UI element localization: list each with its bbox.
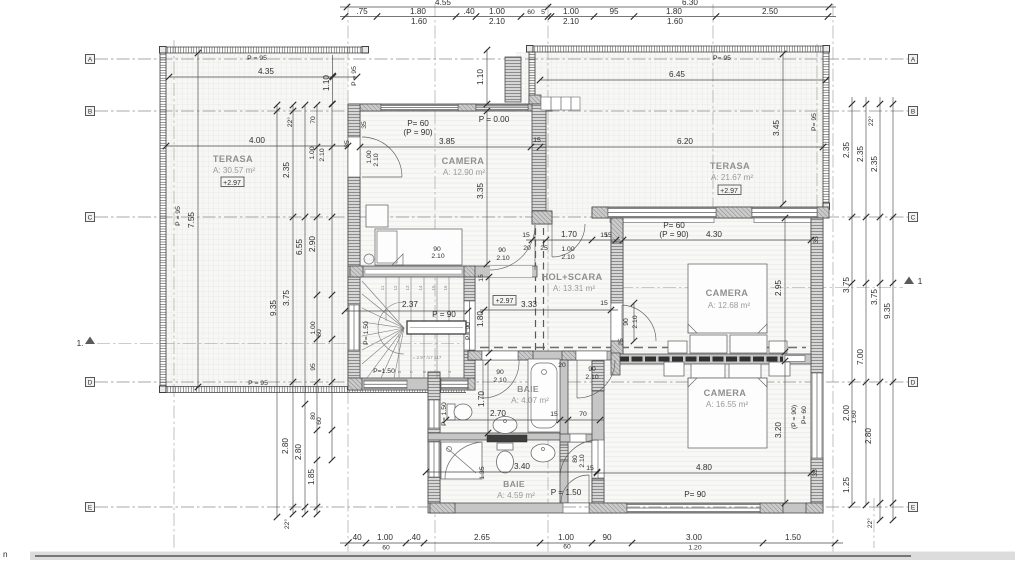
left dim cluster — [276, 105, 278, 517]
svg-text:3.20: 3.20 — [774, 422, 783, 438]
svg-text:E: E — [911, 505, 916, 512]
svg-text:1: 1 — [918, 277, 923, 286]
svg-text:1.80: 1.80 — [666, 7, 682, 16]
bed camera 12.90 — [375, 229, 462, 265]
svg-text:35: 35 — [812, 469, 819, 477]
svg-text:1.80: 1.80 — [410, 7, 426, 16]
svg-text:2.95: 2.95 — [774, 280, 783, 296]
dim 6.20 — [540, 146, 823, 148]
svg-text:4.35: 4.35 — [258, 67, 274, 76]
svg-text:P= 1.50: P= 1.50 — [441, 402, 448, 426]
section line 1 left — [97, 343, 478, 345]
wall: stair east — [464, 277, 475, 378]
svg-text:60: 60 — [563, 544, 571, 551]
camera 12.90 floor — [360, 111, 532, 266]
grid line C — [95, 216, 908, 218]
terrace right top edge — [527, 46, 829, 52]
grid bubble C right — [909, 213, 918, 222]
svg-text:P=1.50: P=1.50 — [373, 368, 395, 375]
svg-text:1.00: 1.00 — [489, 7, 505, 16]
svg-text:D: D — [88, 380, 93, 387]
svg-text:1.50: 1.50 — [785, 533, 801, 542]
svg-text:= 2.97 /17 x17: = 2.97 /17 x17 — [413, 355, 442, 360]
svg-text:22°: 22° — [867, 116, 875, 127]
door camera 12.68 — [621, 305, 623, 341]
wall: stair south — [348, 378, 475, 390]
grid bubble B left — [86, 107, 95, 116]
entry steps — [541, 97, 580, 110]
svg-text:1.00: 1.00 — [563, 7, 579, 16]
svg-text:1.20: 1.20 — [688, 545, 701, 552]
svg-text:P= 90: P= 90 — [465, 322, 472, 340]
dim 4.00 — [166, 145, 348, 147]
dim 1.10 center — [486, 50, 488, 104]
dim chain top row 2 — [340, 16, 836, 18]
svg-text:22°: 22° — [866, 518, 874, 529]
svg-text:n: n — [3, 550, 8, 559]
dim 4.80 — [597, 472, 811, 474]
svg-text:2.00: 2.00 — [842, 405, 851, 421]
dim 4.30 — [623, 239, 811, 241]
svg-text:15: 15 — [604, 232, 612, 239]
grid bubble B right — [909, 107, 918, 116]
wall: hall east / camera 12.68 west — [611, 218, 623, 354]
svg-text:80: 80 — [572, 455, 579, 463]
camera 12.68 floor — [623, 218, 811, 353]
svg-text:1.80: 1.80 — [476, 311, 485, 327]
wall: between bathrooms — [428, 433, 568, 440]
svg-text:2.10: 2.10 — [493, 377, 506, 384]
svg-text:13: 13 — [405, 285, 410, 291]
closet camera 12.90 — [366, 205, 388, 227]
svg-text:P= 60: P= 60 — [801, 406, 808, 424]
dim chain top row 1 — [340, 6, 836, 8]
svg-text:90: 90 — [498, 247, 506, 254]
svg-text:15: 15 — [600, 300, 608, 307]
terrace left floor — [166, 53, 348, 389]
svg-text:4.00: 4.00 — [249, 136, 265, 145]
svg-text:P= 95: P= 95 — [713, 55, 731, 62]
window bath west 2 — [428, 442, 440, 477]
terrace left west edge — [160, 47, 166, 389]
bathtub bath 4.07 — [528, 359, 560, 432]
svg-text:P = 0.00: P = 0.00 — [479, 115, 510, 124]
svg-text:1.70: 1.70 — [561, 230, 577, 239]
svg-text:.40: .40 — [409, 533, 421, 542]
svg-text:15: 15 — [586, 465, 594, 472]
beam line over — [480, 347, 806, 349]
porch corner pier — [529, 95, 541, 104]
svg-text:P= 90: P= 90 — [684, 490, 706, 499]
svg-text:2.70: 2.70 — [490, 409, 506, 418]
svg-text:3.75: 3.75 — [870, 289, 879, 305]
dim 3.35 camera — [486, 111, 488, 264]
terrace left top edge — [160, 47, 368, 53]
svg-text:(P = 90): (P = 90) — [791, 405, 798, 429]
dim 2.70 bath — [446, 419, 560, 421]
svg-text:P= 1.50: P= 1.50 — [363, 321, 370, 345]
dim 1.10 west — [332, 55, 334, 104]
svg-text:CAMERA: CAMERA — [704, 388, 747, 398]
wall: terrace south / camera 12.68 north — [592, 207, 829, 218]
svg-text:A: A — [88, 57, 93, 64]
section line 1 right — [620, 287, 903, 289]
svg-text:15: 15 — [550, 411, 558, 418]
svg-text:1.60: 1.60 — [411, 17, 427, 26]
svg-text:1.35: 1.35 — [479, 466, 486, 479]
svg-text:60: 60 — [527, 9, 535, 16]
window stair south 1 — [364, 380, 407, 389]
svg-text:70: 70 — [579, 411, 587, 418]
grid line E — [95, 506, 908, 508]
dim 4.35 — [169, 76, 357, 78]
svg-text:2.10: 2.10 — [319, 148, 326, 161]
stair — [360, 277, 466, 378]
svg-text:TERASA: TERASA — [213, 154, 253, 164]
svg-text:C: C — [88, 215, 93, 222]
grid vertical x817 — [816, 44, 818, 217]
dim 3.33 hall — [480, 309, 618, 311]
svg-text:+2.97: +2.97 — [720, 188, 738, 195]
svg-text:2.80: 2.80 — [281, 438, 290, 454]
wall: camera 12.90 east — [532, 104, 546, 211]
grid vertical x435 — [434, 4, 436, 552]
svg-text:A: 30.57 m²: A: 30.57 m² — [213, 166, 256, 175]
grid line A — [95, 58, 908, 60]
svg-text:A: 16.55 m²: A: 16.55 m² — [706, 400, 749, 409]
bottom band — [30, 552, 1015, 561]
svg-text:P= 95: P= 95 — [811, 113, 818, 131]
wall: bath north / hall south — [468, 351, 611, 360]
terrace right floor — [516, 52, 823, 207]
svg-text:CAMERA: CAMERA — [442, 156, 485, 166]
svg-text:2.10: 2.10 — [489, 17, 505, 26]
nightstands camera 12.68 — [668, 341, 687, 353]
svg-text:4.30: 4.30 — [706, 230, 722, 239]
pillows camera 16.55 — [691, 364, 725, 378]
svg-text:1.70: 1.70 — [477, 391, 486, 407]
svg-text:1.25: 1.25 — [842, 477, 851, 493]
svg-text:2.35: 2.35 — [842, 142, 851, 158]
wall: corridor east / camera 16.55 west — [592, 361, 604, 503]
svg-text:+2.97: +2.97 — [223, 180, 241, 187]
door opening west wall — [348, 137, 360, 177]
bed camera 16.55 — [688, 378, 767, 448]
door camera 12.90 east — [534, 225, 536, 270]
svg-text:3.45: 3.45 — [772, 120, 781, 136]
svg-text:2.10: 2.10 — [373, 153, 380, 166]
svg-text:A: 12.68 m²: A: 12.68 m² — [708, 301, 751, 310]
grid bubble D right — [909, 378, 918, 387]
grid bubble E right — [909, 503, 918, 512]
svg-text:3.75: 3.75 — [282, 290, 291, 306]
svg-text:2.10: 2.10 — [496, 255, 509, 262]
hol+scara floor — [475, 218, 611, 353]
svg-text:35: 35 — [813, 236, 820, 244]
grid vertical x833 — [832, 4, 834, 552]
svg-text:60: 60 — [316, 417, 323, 425]
svg-text:1.00: 1.00 — [309, 146, 316, 159]
svg-text:2.10: 2.10 — [431, 253, 444, 260]
wall: divider camera 12.68 / 16.55 — [611, 354, 811, 364]
svg-text:3.85: 3.85 — [439, 137, 455, 146]
svg-text:60: 60 — [316, 329, 323, 337]
grid bubble A left — [86, 55, 95, 64]
porch west pier — [505, 57, 521, 102]
svg-text:E: E — [88, 505, 93, 512]
grid vertical x874 — [873, 498, 875, 548]
svg-text:90: 90 — [623, 318, 630, 326]
window W1 north camera 12.90 — [381, 105, 458, 111]
dim 6.45 — [540, 79, 826, 81]
window south P=90 — [627, 504, 760, 513]
svg-text:2.10: 2.10 — [585, 374, 598, 381]
beam verticals hall — [535, 228, 537, 351]
svg-text:P = 1.50: P = 1.50 — [551, 488, 582, 497]
svg-text:11: 11 — [380, 285, 385, 290]
svg-text:7.55: 7.55 — [187, 212, 196, 228]
wall: corridor south — [560, 434, 604, 442]
dim chain bottom — [340, 542, 843, 544]
svg-text:1.: 1. — [77, 339, 84, 348]
door opening camera 12.90 south-east — [490, 266, 532, 277]
door camera 16.55 — [597, 440, 599, 478]
svg-text:3.40: 3.40 — [514, 462, 530, 471]
terrace right west leg — [529, 52, 535, 103]
door entry — [551, 224, 553, 257]
svg-text:C: C — [911, 215, 916, 222]
grid vertical x548 — [547, 4, 549, 552]
dim 3.85 — [360, 146, 531, 148]
svg-text:2.37: 2.37 — [402, 300, 418, 309]
svg-text:2.10: 2.10 — [563, 17, 579, 26]
svg-text:2.80: 2.80 — [294, 444, 303, 460]
svg-text:2.35: 2.35 — [870, 156, 879, 172]
svg-text:BAIE: BAIE — [503, 479, 525, 489]
wall: south wall of house — [428, 503, 823, 513]
window camera 12.68 north P=60 — [608, 208, 716, 218]
svg-text:6.20: 6.20 — [677, 137, 693, 146]
svg-text:A: 13.31 m²: A: 13.31 m² — [553, 284, 596, 293]
svg-text:P= 60: P= 60 — [407, 119, 429, 128]
svg-text:4.55: 4.55 — [435, 0, 451, 7]
svg-text:P = 95: P = 95 — [175, 206, 182, 226]
svg-text:2.50: 2.50 — [762, 7, 778, 16]
svg-text:7.00: 7.00 — [856, 349, 865, 365]
svg-text:90: 90 — [496, 369, 504, 376]
svg-text:3.35: 3.35 — [476, 183, 485, 199]
svg-text:A: 21.67 m²: A: 21.67 m² — [711, 173, 754, 182]
svg-text:90: 90 — [588, 366, 596, 373]
door bath 4.07 — [482, 360, 484, 398]
svg-text:1.00: 1.00 — [366, 150, 373, 163]
svg-text:A: 12.90 m²: A: 12.90 m² — [443, 168, 486, 177]
svg-text:P = 90: P = 90 — [432, 310, 456, 319]
svg-text:3.00: 3.00 — [686, 533, 702, 542]
window north 2 — [752, 208, 817, 218]
svg-text:4.80: 4.80 — [696, 463, 712, 472]
svg-text:3.75: 3.75 — [842, 277, 851, 293]
dim 2.37 stair — [345, 310, 468, 312]
door south exit — [588, 475, 590, 503]
grid E over south window — [627, 506, 760, 508]
grid bubble A right — [909, 55, 918, 64]
svg-text:.75: .75 — [356, 7, 368, 16]
svg-text:(P = 90): (P = 90) — [659, 230, 688, 239]
svg-text:1.00: 1.00 — [558, 533, 574, 542]
window east camera 16.55 — [811, 373, 823, 458]
svg-text:.40: .40 — [350, 533, 362, 542]
dim 3.45 terrace — [782, 54, 784, 204]
dim 1.70 bath — [487, 362, 489, 433]
svg-text:.40: .40 — [463, 7, 475, 16]
svg-text:A: 4.59 m²: A: 4.59 m² — [497, 491, 535, 500]
section marker 1 right — [904, 277, 914, 285]
svg-text:25: 25 — [618, 338, 625, 346]
svg-text:HOL+SCARA: HOL+SCARA — [541, 272, 602, 282]
dim 2.95 — [784, 218, 786, 352]
svg-text:14: 14 — [418, 285, 423, 291]
wall: north wall of camera 12.90 — [348, 104, 552, 111]
grid line D — [95, 381, 908, 383]
svg-text:25: 25 — [540, 245, 548, 252]
svg-text:95: 95 — [609, 7, 619, 16]
svg-text:20: 20 — [558, 362, 566, 369]
svg-text:1.60: 1.60 — [851, 410, 858, 423]
svg-text:9.35: 9.35 — [883, 303, 892, 319]
svg-text:1.00: 1.00 — [561, 246, 574, 253]
svg-text:15: 15 — [533, 137, 541, 144]
entry porch floor — [546, 104, 592, 224]
svg-text:35: 35 — [361, 121, 368, 129]
svg-text:A: A — [911, 57, 916, 64]
svg-text:1.85: 1.85 — [307, 469, 316, 485]
svg-text:15: 15 — [478, 274, 485, 282]
camera 16.55 floor — [604, 361, 811, 503]
svg-text:15: 15 — [431, 285, 436, 291]
svg-text:95: 95 — [310, 363, 317, 371]
svg-text:1.10: 1.10 — [322, 75, 331, 91]
door opening camera 12.68 — [611, 303, 623, 341]
svg-text:(P = 90): (P = 90) — [403, 128, 432, 137]
svg-text:1.00: 1.00 — [377, 533, 393, 542]
svg-text:6.30: 6.30 — [682, 0, 698, 7]
wall: east wall of house — [811, 218, 823, 503]
svg-text:P = 95: P = 95 — [247, 55, 267, 62]
grid vertical x174 — [173, 40, 175, 548]
svg-text:2.10: 2.10 — [579, 454, 586, 467]
bathrooms + corridor floor — [440, 362, 568, 440]
toilet bath 4.59 — [497, 443, 513, 450]
svg-text:BAIE: BAIE — [517, 384, 539, 394]
wall: bath west — [428, 372, 440, 503]
svg-text:2.10: 2.10 — [561, 254, 574, 261]
svg-text:CAMERA: CAMERA — [706, 288, 749, 298]
grid bubble D left — [86, 378, 95, 387]
svg-text:P = 95: P = 95 — [248, 380, 268, 387]
svg-text:A: 4.07 m²: A: 4.07 m² — [511, 396, 549, 405]
svg-text:22°: 22° — [283, 519, 291, 530]
svg-text:16: 16 — [443, 285, 448, 291]
wall: partition bath / corridor — [560, 360, 568, 435]
svg-text:60: 60 — [382, 545, 390, 552]
svg-text:22°: 22° — [286, 117, 294, 128]
svg-text:2.35: 2.35 — [282, 162, 291, 178]
bed camera 12.68 — [688, 264, 767, 333]
dim 7.55 — [197, 53, 199, 387]
dim 3.20 — [784, 361, 786, 503]
svg-text:6.45: 6.45 — [669, 70, 685, 79]
grid line B — [95, 110, 908, 112]
svg-text:P= 60: P= 60 — [663, 221, 685, 230]
svg-text:2.10: 2.10 — [632, 315, 639, 328]
terrace right east edge — [823, 46, 829, 207]
right dim cluster — [851, 97, 853, 505]
svg-text:12: 12 — [393, 285, 398, 291]
window W2 north — [476, 105, 528, 111]
toilet bath 4.07 — [447, 404, 455, 420]
svg-text:2.65: 2.65 — [474, 533, 490, 542]
grid vertical x713 — [712, 4, 714, 218]
dim 1.70 entry — [526, 239, 620, 241]
svg-text:90: 90 — [433, 246, 441, 253]
grid bubble E left — [86, 503, 95, 512]
svg-text:20: 20 — [523, 245, 531, 252]
terrace left bottom edge — [160, 387, 466, 393]
window west stair P=1.50 — [348, 305, 360, 350]
svg-text:1.60: 1.60 — [667, 17, 683, 26]
svg-text:P = 95: P = 95 — [351, 66, 358, 86]
sink bath 4.59 — [531, 444, 555, 462]
wall: camera 12.90 south / stair north — [348, 266, 537, 277]
svg-text:2.80: 2.80 — [864, 428, 873, 444]
window stair south 2 — [441, 380, 468, 389]
svg-text:6.55: 6.55 — [295, 239, 304, 255]
svg-text:3.33: 3.33 — [521, 300, 537, 309]
svg-text:B: B — [911, 109, 915, 116]
svg-text:D: D — [911, 380, 916, 387]
grid bubble C left — [86, 213, 95, 222]
shower bath 4.59 — [441, 442, 482, 479]
svg-text:9.35: 9.35 — [269, 300, 278, 316]
window bath west 1 — [428, 400, 440, 428]
dim 1.80 — [488, 277, 490, 353]
svg-text:1.10: 1.10 — [476, 69, 485, 85]
sink bath 4.07 — [493, 417, 517, 434]
svg-text:B: B — [88, 109, 92, 116]
svg-text:2.90: 2.90 — [308, 236, 317, 252]
grid vertical x348 — [347, 4, 349, 552]
svg-text:TERASA: TERASA — [710, 161, 750, 171]
svg-text:+2.97: +2.97 — [496, 298, 514, 305]
svg-text:2.35: 2.35 — [856, 146, 865, 162]
door corridor — [576, 360, 578, 398]
wall: west wall of house — [348, 104, 360, 390]
door camera 12.90 west — [362, 176, 402, 178]
svg-text:90: 90 — [602, 533, 612, 542]
dim 3.40 bath — [426, 471, 597, 473]
svg-text:5: 5 — [541, 9, 545, 16]
svg-text:15: 15 — [522, 232, 530, 239]
nightstands camera 16.55 — [664, 362, 684, 376]
svg-text:70: 70 — [310, 116, 317, 124]
pillows camera 12.68 — [690, 335, 727, 353]
lintel strip in south wall of camera — [365, 270, 462, 275]
